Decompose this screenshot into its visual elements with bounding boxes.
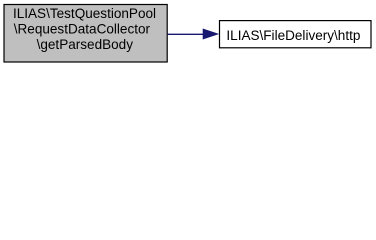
- edge arrow getParsedBody -> http: [168, 29, 218, 39]
- node ILIAS\FileDelivery\http: [220, 21, 372, 48]
- svg-text:\RequestDataCollector: \RequestDataCollector: [14, 21, 151, 36]
- svg-text:\getParsedBody: \getParsedBody: [37, 37, 134, 52]
- svg-text:ILIAS\FileDelivery\http: ILIAS\FileDelivery\http: [226, 28, 360, 43]
- svg-text:ILIAS\TestQuestionPool: ILIAS\TestQuestionPool: [13, 6, 156, 21]
- node ILIAS\TestQuestionPool\RequestDataCollector\getParsedBody (current, grey): [4, 5, 167, 63]
